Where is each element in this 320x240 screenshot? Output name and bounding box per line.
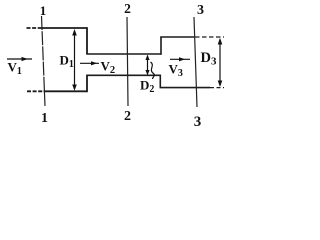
wire step up to pipe3	[160, 37, 162, 55]
node section line 3	[194, 17, 197, 107]
wire pipe1 top edge	[27, 27, 43, 29]
svg-text:V3: V3	[169, 62, 183, 80]
arrow V2 flow	[80, 61, 99, 65]
svg-text:D2: D2	[140, 78, 154, 96]
wire pipe1 right wall lower	[86, 75, 88, 92]
svg-text:3: 3	[197, 3, 204, 18]
wire step down to pipe3	[159, 75, 161, 88]
svg-text:2: 2	[124, 1, 131, 16]
wire D2 leader squiggle	[151, 62, 155, 79]
svg-text:V2: V2	[101, 59, 116, 77]
wire pipe2 top edge	[86, 53, 161, 55]
svg-text:D1: D1	[60, 53, 74, 71]
svg-text:1: 1	[41, 111, 48, 126]
arrow V3 flow	[170, 57, 190, 61]
arrow V1 flow	[7, 57, 32, 61]
svg-text:1: 1	[40, 3, 47, 18]
svg-text:D3: D3	[201, 50, 217, 68]
dimension D3 arrow	[218, 38, 223, 87]
wire pipe3 bottom edge	[160, 87, 211, 89]
dimension D2 arrow	[145, 55, 149, 76]
dimension D1 arrow	[72, 29, 77, 91]
wire pipe1 right wall upper	[86, 27, 88, 54]
node section line 2	[127, 17, 128, 106]
svg-text:2: 2	[124, 109, 131, 124]
wire pipe2 bottom edge	[86, 74, 160, 76]
wire pipe1 bottom edge	[27, 90, 44, 92]
node section line 1	[42, 16, 46, 106]
wire pipe3 top edge	[160, 36, 194, 38]
svg-text:3: 3	[194, 114, 202, 127]
svg-text:V1: V1	[8, 60, 22, 78]
